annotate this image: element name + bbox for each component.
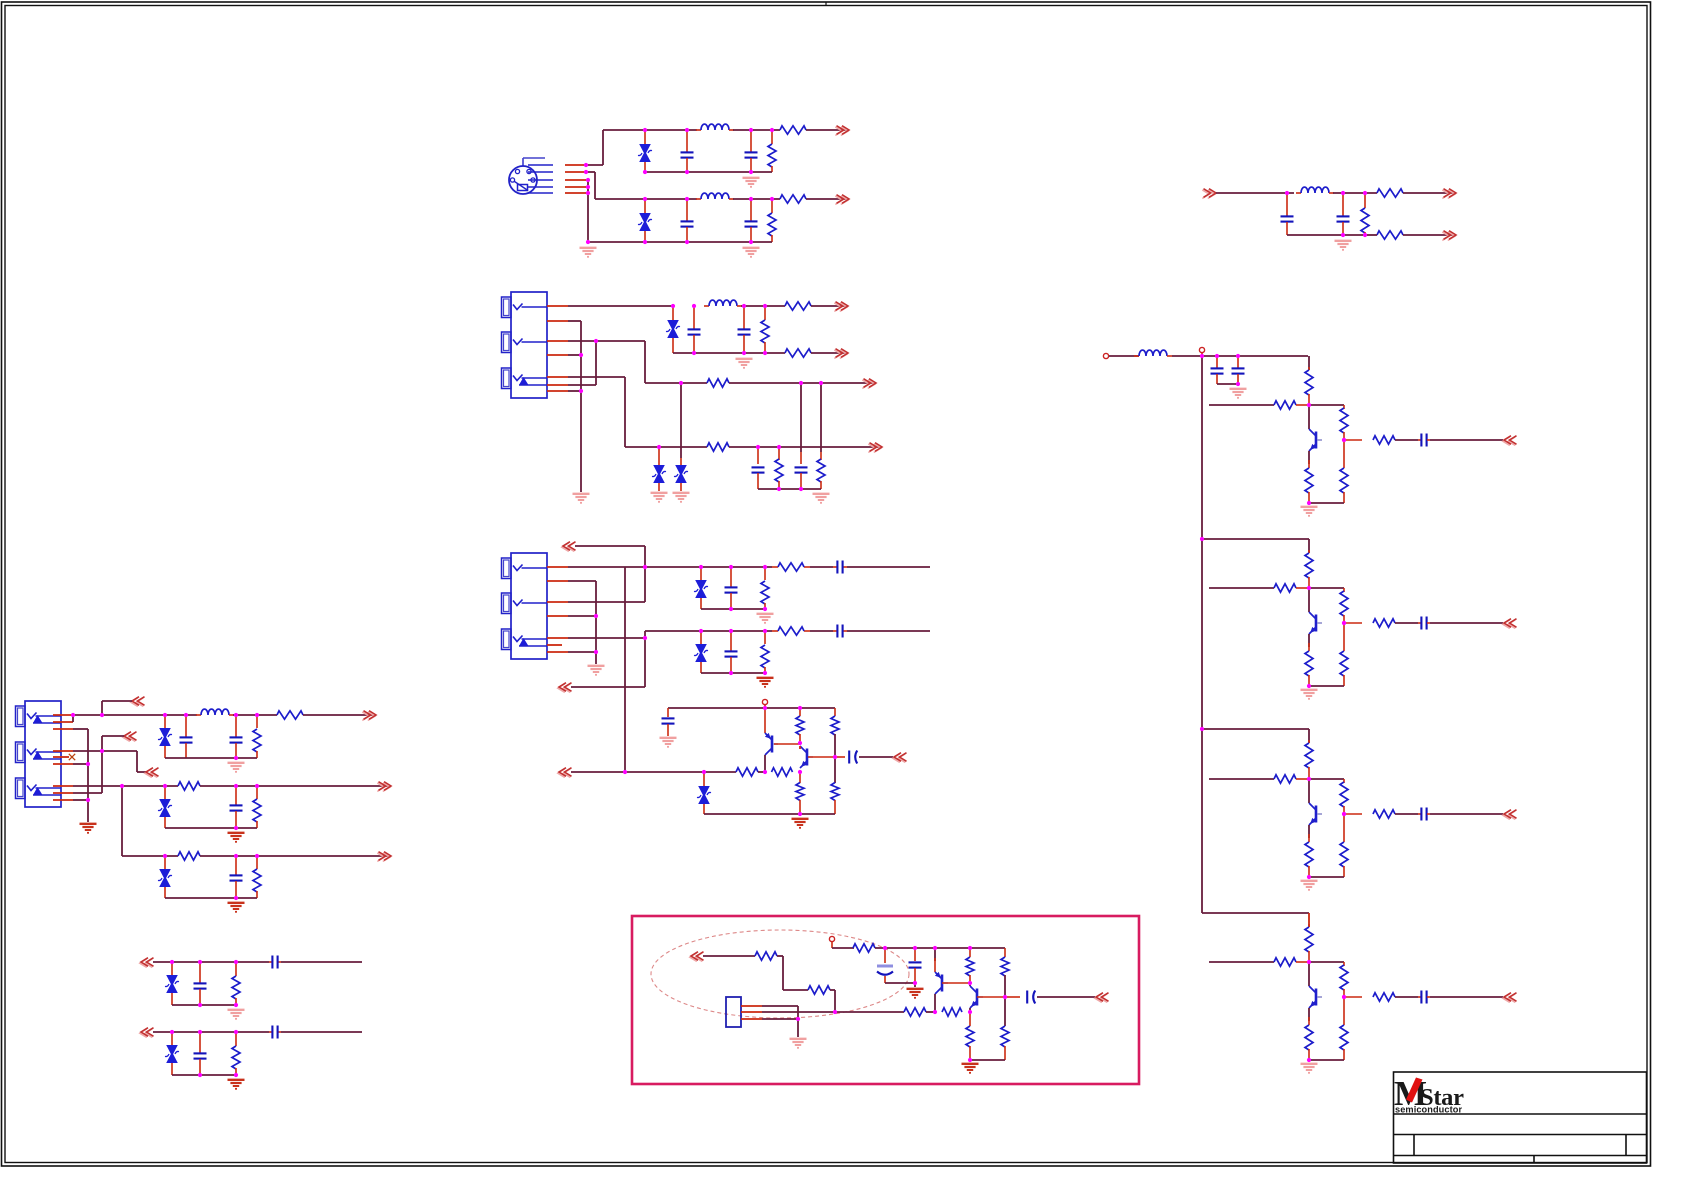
wire [764,755,766,770]
wire [969,983,971,986]
resistor R41 [1340,591,1348,616]
highlight box [632,916,1139,1084]
capacitor C9 [752,466,765,468]
ground [962,1063,979,1065]
jack contact [27,749,37,755]
wire Pr [568,376,625,378]
junction [1215,354,1219,358]
ground [907,988,924,990]
resistor R27 [178,782,200,790]
junction [749,197,753,201]
junction (base) [1342,812,1346,816]
wire [783,989,808,991]
junction [796,1017,800,1021]
resistor R36 (series out) [1373,436,1395,444]
junction [1307,875,1311,879]
output port [1503,437,1516,446]
wire bottom rail [704,813,835,815]
wire [73,728,88,730]
wire [1308,913,1310,927]
resistor R35 [1340,408,1348,433]
wire [1395,622,1418,624]
resistor R46 (base) [1274,775,1296,783]
ground [1301,1063,1318,1065]
junction [71,713,75,717]
inductor L3 [1296,192,1301,194]
wire Pb row [645,382,707,384]
wire [281,961,362,963]
wire video2 [568,637,645,639]
jack barrel [502,368,512,389]
output port [1503,811,1516,820]
capacitor C7 [688,328,701,330]
resistor R15 [761,581,769,604]
resistor R43 (emitter) [1305,651,1313,676]
ground [757,677,774,679]
junction [657,445,661,449]
ground [743,177,760,179]
junction [729,629,733,633]
resistor R34 (base) [1274,401,1296,409]
wire [1037,996,1095,998]
wire [233,714,277,716]
junction [742,304,746,308]
connector block J3 (AV jacks) [511,553,547,659]
wire [624,377,626,447]
ground [228,1009,245,1011]
jack contact [513,600,523,606]
wire [1308,405,1310,429]
inductor L2 [696,198,701,200]
resistor R7 [1377,231,1403,239]
junction [913,981,917,985]
wire bottom rail [970,1059,1005,1061]
ground [790,1038,807,1040]
junction [913,946,917,950]
junction [833,1010,837,1014]
S-video pin stubs [565,165,587,193]
capacitor C33 (coupling) [1026,991,1028,1004]
wire bottom rail [165,757,257,759]
wire [137,771,146,773]
junction [1341,233,1345,237]
resistor R26 [277,711,303,719]
resistor R51 (collector) [1305,927,1313,952]
TVS diode D13 [166,1045,178,1055]
junction [1307,1058,1311,1062]
pin stubs J4 [53,715,73,800]
junction (top node) [1307,777,1311,781]
wire [1004,975,1006,997]
wire [644,546,646,602]
port arrow [131,698,144,707]
capacitor C2 [745,151,758,153]
ground [573,493,590,495]
ground [588,665,605,667]
capacitor C11 [725,586,738,588]
wire [1308,356,1310,370]
input port [1202,190,1215,199]
resistor R21 [736,768,758,776]
junction [777,487,781,491]
wire [102,735,124,737]
wire video in [73,714,165,716]
capacitor C8 [738,328,751,330]
junction [643,240,647,244]
wire [830,989,835,991]
capacitor C12 [836,561,838,574]
junction [234,756,238,760]
resistor R10 [785,349,811,357]
junction (output node) [833,755,837,759]
wire [926,1011,935,1013]
wire stage1 feed [1202,355,1308,357]
junction [86,762,90,766]
transistor Q8 (NPN) [976,989,979,1006]
junction [255,854,259,858]
node gnd pin [586,191,590,195]
junction [685,240,689,244]
resistor R53 [1340,965,1348,990]
junction [749,240,753,244]
resistor R45 (collector) [1305,743,1313,768]
ground [228,1079,245,1081]
tuner connector [726,997,741,1027]
junction [163,713,167,717]
resistor R62 [966,957,974,976]
wire [303,714,373,716]
wire [595,341,597,385]
wire C pin [587,171,595,173]
jack contact [27,785,37,791]
junction [729,607,733,611]
node gnd pin [586,185,590,189]
junction [234,713,238,717]
wire [73,792,102,794]
resistor R30 [253,869,261,892]
wire bottom rail [1287,234,1365,236]
wire [762,1018,798,1020]
junction [742,351,746,355]
output port [868,444,881,453]
wire [811,352,845,354]
jack mark (triangle) [519,638,529,646]
resistor R55 (emitter) [1305,1025,1313,1050]
junction [685,197,689,201]
resistor R29 [178,852,200,860]
junction [968,1010,972,1014]
resistor R9 [785,302,811,310]
power port [1199,347,1204,352]
junction [234,1003,238,1007]
wire [1216,192,1294,194]
junction [777,445,781,449]
wire bottom rail [1309,685,1344,687]
wire [1395,996,1418,998]
wire [703,955,755,957]
ground [80,823,97,825]
no-connect mark [69,754,75,760]
TVS diode D2 [639,213,651,223]
junction [763,770,767,774]
junction (top node) [1307,586,1311,590]
junction [763,304,767,308]
capacitor C15 [662,717,675,719]
wire gnd bus J3 [595,581,597,664]
wire [733,129,780,131]
resistor R49 (emitter) [1305,842,1313,867]
wire C row [595,198,697,200]
TVS diode D5 [675,465,687,475]
wire base feed stage3 [1209,778,1274,780]
junction [234,1073,238,1077]
wire [797,1006,799,1037]
junction [1363,191,1367,195]
ground [813,493,830,495]
wire supply rail [668,707,835,709]
transistor Q7 (PNP) [941,975,944,992]
capacitor C5 [1281,215,1294,217]
wire gnd bus J2 [580,321,582,492]
wire [799,746,801,749]
junction [643,197,647,201]
junction [100,749,104,753]
wire [1308,962,1310,986]
wire [733,198,780,200]
junction [594,614,598,618]
wire [729,446,879,448]
junction [763,629,767,633]
wire [1308,825,1310,838]
junction [729,671,733,675]
wire [102,700,132,702]
wire [885,982,915,984]
resistor R63 [1001,957,1009,976]
wire [782,956,784,990]
transistor Q3 (NPN) [1315,432,1318,449]
junction [770,128,774,132]
wire base feed stage4 [1209,961,1274,963]
wire [101,736,103,751]
ground [580,247,597,249]
resistor R14 [817,459,825,482]
resistor R40 (base) [1274,584,1296,592]
resistor R39 (collector) [1305,553,1313,578]
wire [1309,404,1344,406]
ground [228,762,245,764]
wire bottom rail [701,672,765,674]
capacitor C19 [230,804,243,806]
wire bottom rail [1309,1059,1344,1061]
wire [934,994,936,1012]
transistor Q1 (PNP) [771,736,774,753]
resistor R58 [808,986,830,994]
wire Y pin [586,164,603,166]
output port C [835,196,848,205]
resistor R23 [796,783,804,801]
wire stage4 feed [1202,912,1309,914]
resistor R5 [1361,208,1369,233]
port arrow [123,733,136,742]
capacitor C26 [1232,367,1245,369]
resistor R48 (series out) [1373,810,1395,818]
wire [969,1008,971,1012]
junction [933,1010,937,1014]
TVS diode D8 [698,786,710,796]
junction [234,784,238,788]
junction [799,381,803,385]
resistor R64 [966,1026,974,1047]
junction [819,381,823,385]
junction [702,770,706,774]
wire [594,172,596,199]
capacitor C27 (coupling) [1420,434,1422,447]
junction (base) [1342,621,1346,625]
wire [1308,729,1310,743]
transistor Q5 (NPN) [1315,806,1318,823]
resistor R19 [796,716,804,735]
junction [163,784,167,788]
output port [862,380,875,389]
junction [170,1030,174,1034]
jack contact [513,636,523,642]
wire [800,383,802,452]
junction [798,770,802,774]
wire Y bottom rail [645,171,772,173]
wire [72,715,74,722]
wire [136,751,138,772]
svg-text:semiconductor: semiconductor [1395,1105,1462,1115]
wire [568,651,596,653]
output port [834,350,847,359]
wire Y row [603,129,697,131]
TVS diode D11 [159,869,171,879]
wire [810,630,833,632]
ground [757,613,774,615]
junction [1307,501,1311,505]
junction [749,128,753,132]
wire [1395,813,1418,815]
junction [1236,382,1240,386]
junction [1003,995,1007,999]
junction [234,826,238,830]
jack mark (triangle) [33,751,43,759]
junction [643,565,647,569]
wire [1308,779,1310,803]
wire [835,1011,904,1013]
resistor R52 (base) [1274,958,1296,966]
junction [594,650,598,654]
wire audio-L [568,601,645,603]
capacitor C30 (coupling) [1420,991,1422,1004]
resistor R13 [775,459,783,482]
TVS diode D1 [639,144,651,154]
resistor R4 [780,195,806,203]
ground [660,737,677,739]
input port [558,684,571,693]
resistor R25 [253,729,261,752]
junction [749,170,753,174]
wire [568,580,596,582]
wire [834,990,836,1012]
wire [596,340,645,342]
transistor Q4 (NPN) [1315,615,1318,632]
jack contact [513,375,523,381]
wire bottom rail [701,608,765,610]
wire [1430,622,1503,624]
capacitor C18 [230,736,243,738]
wire [811,305,845,307]
junction [1200,727,1204,731]
junction [763,351,767,355]
wire [121,786,123,856]
resistor R56 [1340,1025,1348,1050]
jack barrel [502,332,512,353]
junction [699,565,703,569]
junction [763,706,767,710]
wire [568,615,596,617]
inductor L4 [704,305,709,307]
capacitor C14 [836,625,838,638]
wire [568,384,596,386]
wire [820,383,822,452]
inductor L5 [196,714,201,716]
wire [602,130,604,165]
junction [1341,191,1345,195]
resistor R20 [831,716,839,735]
wire [934,948,936,961]
wire bottom rail [165,827,257,829]
jack barrel [502,629,512,650]
resistor R42 (series out) [1373,619,1395,627]
node pin [584,163,588,167]
junction [1200,354,1204,358]
wire bottom rail [165,897,257,899]
junction (base) [1342,995,1346,999]
capacitor C17 [180,736,193,738]
resistor R6 [1377,189,1403,197]
resistor R17 [761,645,769,668]
junction [968,946,972,950]
title block [1394,1072,1647,1163]
wire bottom rail [172,1004,236,1006]
junction [579,389,583,393]
resistor R37 (emitter) [1305,468,1313,493]
capacitor C6 [1337,215,1350,217]
wire gnd bus J4 [87,729,89,822]
junction [679,381,683,385]
resistor R11 [707,379,729,387]
junction [883,946,887,950]
wire [1430,996,1503,998]
transistor Q2 (NPN) [806,749,809,766]
lead [1201,353,1203,356]
wire supply [832,947,854,949]
wire [568,354,581,356]
wire [1004,997,1006,1026]
wire [1109,355,1139,357]
resistor R65 [1001,1026,1009,1047]
jack barrel [502,558,512,579]
wire bottom rail [1309,502,1344,504]
capacitor C28 (coupling) [1420,617,1422,630]
jack mark (triangle) [519,377,529,385]
capacitor C21 [194,982,207,984]
wire C bottom rail [588,241,772,243]
output port [1503,994,1516,1003]
wire [101,751,103,793]
wire Pb [568,340,596,342]
